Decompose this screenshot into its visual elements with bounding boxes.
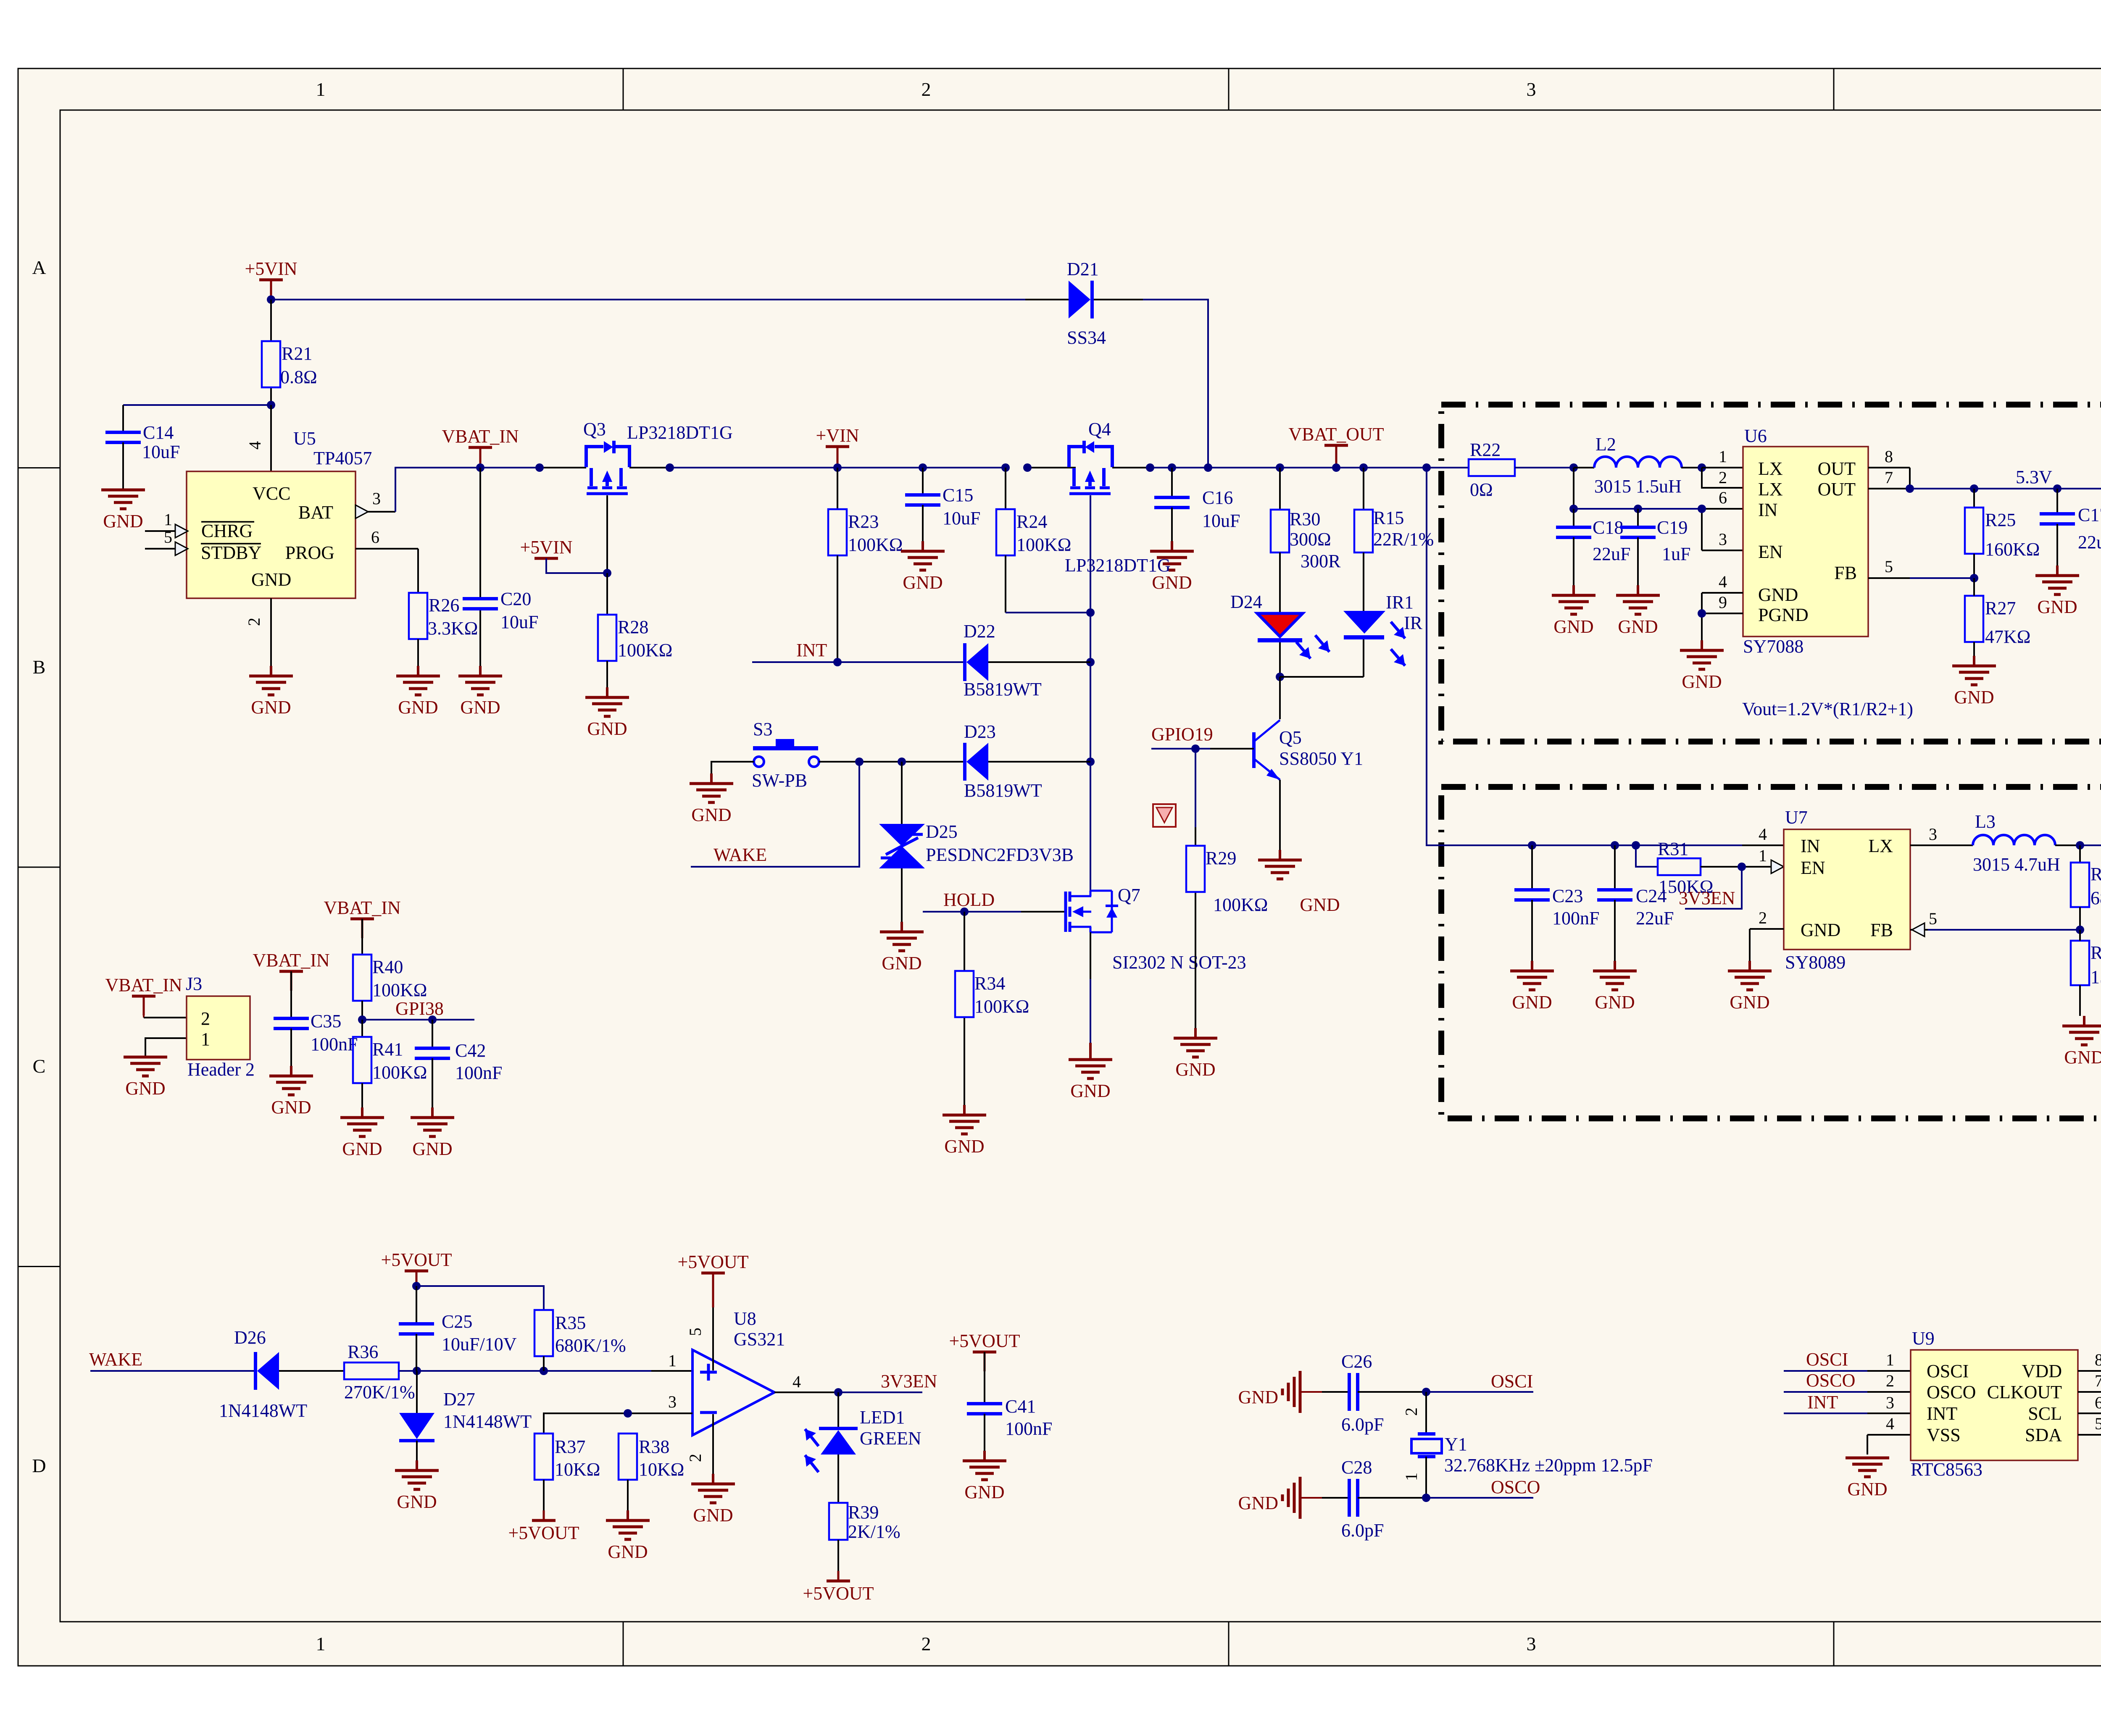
label 100nF C42 (455, 1063, 502, 1083)
svg-text:GND: GND (608, 1541, 648, 1562)
svg-text:VCC: VCC (253, 483, 290, 504)
wire D25 top (901, 762, 903, 824)
svg-text:VBAT_IN: VBAT_IN (253, 950, 329, 971)
label 1N4148WT D27 (443, 1411, 532, 1432)
label R26 (429, 595, 459, 615)
svg-text:GND: GND (882, 953, 921, 973)
pin number 5 U7 (1929, 909, 1937, 928)
label R39 (848, 1502, 879, 1523)
resistor R31 (1658, 858, 1701, 875)
power flag +5VIN gate (520, 537, 572, 558)
svg-text:1N4148WT: 1N4148WT (443, 1411, 532, 1432)
label Header 2 (187, 1059, 255, 1080)
svg-text:R27: R27 (1985, 598, 2016, 618)
svg-text:INT: INT (1927, 1403, 1957, 1424)
ground C23 (1510, 961, 1554, 1013)
junction R35 bottom (540, 1367, 548, 1375)
svg-text:1: 1 (164, 510, 172, 529)
svg-text:C41: C41 (1005, 1396, 1036, 1417)
svg-text:1: 1 (201, 1029, 210, 1049)
svg-text:GND: GND (251, 697, 291, 718)
svg-text:5: 5 (1929, 909, 1937, 928)
wire J3 pin1 to ground (145, 1038, 187, 1056)
svg-text:C18: C18 (1593, 517, 1623, 538)
wire 3.3V rail (2080, 844, 2101, 846)
ground left C26 (1238, 1371, 1349, 1413)
svg-text:3: 3 (1527, 79, 1536, 100)
svg-text:R24: R24 (1016, 511, 1047, 532)
resistor R38 (619, 1434, 637, 1510)
label LP3218DT1G Q3 (627, 422, 733, 443)
junction EN 3V3EN (1738, 863, 1746, 871)
power flag VBAT_IN J3 (105, 975, 182, 1015)
resistor R35 (534, 1310, 553, 1371)
power flag VBAT_IN R40 (324, 897, 400, 938)
pin number 1 U5 (164, 510, 172, 529)
svg-text:R35: R35 (555, 1313, 586, 1333)
svg-text:100KΩ: 100KΩ (372, 980, 427, 1000)
svg-text:IN: IN (1758, 500, 1777, 520)
svg-text:680K/1%: 680K/1% (555, 1335, 626, 1356)
wire D24 to node (1279, 642, 1281, 677)
svg-text:100nF: 100nF (1005, 1418, 1052, 1439)
svg-text:GND: GND (412, 1139, 452, 1159)
svg-text:VDD: VDD (2022, 1361, 2062, 1381)
junction D25 riser (898, 758, 906, 766)
svg-text:100KΩ: 100KΩ (1016, 534, 1071, 555)
svg-text:300R: 300R (1301, 551, 1341, 571)
wire R24 to gate column (1006, 612, 1090, 613)
junction C18 (1569, 505, 1578, 513)
wire minus input (544, 1413, 692, 1434)
label Q7 (1118, 885, 1140, 905)
junction VBAT_OUT (1332, 463, 1340, 472)
svg-text:+5VOUT: +5VOUT (508, 1523, 579, 1543)
label 15Kohm (2090, 967, 2101, 987)
svg-text:6: 6 (1719, 488, 1727, 507)
svg-text:LED1: LED1 (860, 1407, 905, 1428)
svg-text:L2: L2 (1595, 434, 1616, 455)
svg-text:+5VOUT: +5VOUT (803, 1583, 874, 1604)
svg-text:GPI38: GPI38 (395, 998, 444, 1019)
pin name PROG (285, 542, 334, 563)
label TP4057 (313, 448, 372, 468)
pin number 7 U6 (1885, 468, 1893, 487)
ground C20 (458, 666, 502, 718)
net label OSCI crystal (1491, 1371, 1533, 1391)
resistor R39 (829, 1503, 848, 1571)
svg-text:PESDNC2FD3V3B: PESDNC2FD3V3B (926, 844, 1074, 865)
svg-text:R33: R33 (2090, 942, 2101, 963)
junction EN (1698, 505, 1706, 513)
label R40 (372, 957, 403, 977)
label D26 (234, 1327, 266, 1348)
label 3.3Kohm (428, 618, 478, 639)
label 3015 4.7uH (1973, 854, 2060, 875)
label U6 (1744, 426, 1767, 446)
label R38 (639, 1436, 669, 1457)
junction GPI38 R40 (358, 1015, 366, 1024)
junction +5VOUT C25 (412, 1282, 421, 1290)
ground C42 (411, 1107, 454, 1159)
label 100nF C23 (1552, 908, 1599, 928)
svg-text:GND: GND (964, 1482, 1004, 1502)
junction Q4 source node (1023, 463, 1032, 472)
svg-text:1: 1 (1886, 1350, 1894, 1369)
svg-text:WAKE: WAKE (713, 844, 767, 865)
ground left C28 (1238, 1477, 1349, 1519)
svg-text:GND: GND (125, 1078, 165, 1099)
wire R31 to EN (1701, 866, 1771, 868)
label PESDNC2FD3V3B (926, 844, 1074, 865)
label C35 (311, 1011, 341, 1031)
svg-text:GND: GND (397, 1491, 437, 1512)
power flag +5VOUT U8 (677, 1252, 748, 1307)
wire +5VIN to gate junction (546, 558, 607, 573)
svg-text:LP3218DT1G: LP3218DT1G (627, 422, 733, 443)
LED LED1 green (819, 1392, 858, 1503)
pin number 2 U9 (1886, 1371, 1894, 1390)
svg-text:D27: D27 (443, 1389, 475, 1410)
junction C16 (1168, 463, 1176, 472)
net label GPI38 (395, 998, 444, 1019)
label 300R (1301, 551, 1341, 571)
junction OUT (1906, 484, 1914, 493)
svg-text:3: 3 (372, 489, 381, 508)
capacitor C35 (274, 971, 309, 1066)
wire OUT pins to rail (1868, 468, 2101, 489)
svg-text:SY8089: SY8089 (1785, 952, 1846, 973)
svg-text:4: 4 (245, 441, 264, 450)
svg-text:C17: C17 (2078, 505, 2101, 525)
svg-text:4: 4 (1759, 825, 1767, 844)
svg-text:BAT: BAT (298, 502, 333, 523)
pin number 1 U6 (1719, 447, 1727, 466)
wire R29 column (1195, 749, 1196, 1028)
wire C20 column (479, 468, 481, 666)
label R37 (555, 1436, 585, 1457)
junction R31 branch (1632, 841, 1640, 850)
svg-text:R36: R36 (348, 1341, 378, 1362)
svg-text:GND: GND (587, 718, 627, 739)
svg-text:VSS: VSS (1927, 1425, 1961, 1445)
label R21 (282, 343, 312, 364)
pin number 3 (372, 489, 381, 508)
label C19 (1657, 517, 1688, 538)
net label WAKE (713, 844, 767, 865)
svg-text:0.8Ω: 0.8Ω (280, 367, 317, 387)
ground R28 (585, 687, 629, 739)
wire Y1 bottom (1425, 1457, 1427, 1498)
svg-text:GREEN: GREEN (860, 1428, 921, 1449)
svg-text:8: 8 (1885, 447, 1893, 466)
svg-text:8: 8 (2095, 1350, 2101, 1369)
svg-text:100KΩ: 100KΩ (618, 640, 672, 660)
svg-text:IR: IR (1404, 613, 1423, 633)
pin number 9 U6 (1719, 593, 1727, 612)
pin names U6 right (1818, 458, 1857, 583)
svg-text:IN: IN (1801, 836, 1820, 856)
svg-text:S3: S3 (753, 719, 772, 739)
wire WAKE (691, 762, 859, 867)
wire Q3 gate to +5VIN (606, 495, 608, 573)
svg-text:100nF: 100nF (1552, 908, 1599, 928)
svg-text:Y1: Y1 (1445, 1434, 1467, 1455)
pin number 6 U9 (2095, 1393, 2101, 1412)
label 22uF C17 (2078, 532, 2101, 552)
wire to C14 (123, 405, 271, 432)
ground D25 (880, 922, 924, 973)
svg-text:D: D (32, 1455, 46, 1476)
label U5 (293, 428, 316, 449)
svg-text:GS321: GS321 (734, 1329, 785, 1349)
svg-text:PROG: PROG (285, 542, 334, 563)
net label GPIO19 (1151, 724, 1213, 744)
label C15 (943, 485, 973, 505)
label R15 (1373, 508, 1404, 528)
svg-text:R32: R32 (2090, 864, 2101, 884)
svg-text:1: 1 (1759, 846, 1767, 865)
wire VSS to ground (1867, 1435, 1911, 1455)
svg-text:100KΩ: 100KΩ (848, 534, 903, 555)
power flag +5VIN (245, 258, 297, 299)
ground C35 (269, 1066, 313, 1118)
pin 5 FB arrow U7 (1912, 923, 1925, 936)
wire S3 right line D23 (819, 761, 1090, 763)
wire BAT to rail (395, 468, 480, 512)
pin 2 GND stub (270, 598, 272, 666)
capacitor C23 (1514, 845, 1550, 961)
svg-text:32.768KHz ±20ppm 12.5pF: 32.768KHz ±20ppm 12.5pF (1444, 1455, 1653, 1476)
resistor R34 (955, 971, 974, 1017)
svg-text:5: 5 (686, 1328, 705, 1336)
svg-text:Vout=1.2V*(R1/R2+1): Vout=1.2V*(R1/R2+1) (1742, 699, 1913, 719)
pin number 4 U5 (245, 441, 264, 450)
capacitor C25 (399, 1286, 434, 1371)
wire gate to R28 (606, 573, 608, 615)
svg-text:100KΩ: 100KΩ (1213, 894, 1268, 915)
label R24 (1016, 511, 1047, 532)
resistor R37 (534, 1434, 553, 1511)
label 2K/1% (848, 1521, 900, 1542)
LED D24 arrows (1296, 635, 1330, 659)
svg-text:SW-PB: SW-PB (752, 770, 807, 791)
label Q5 (1279, 727, 1302, 748)
label R35 (555, 1313, 586, 1333)
svg-text:GND: GND (1300, 894, 1340, 915)
ground R33 (2062, 1016, 2101, 1068)
capacitor C24 (1597, 845, 1632, 961)
pin number 6 U5 (371, 528, 379, 547)
svg-text:VBAT_OUT: VBAT_OUT (1288, 424, 1384, 445)
svg-text:22uF: 22uF (1636, 908, 1674, 928)
label 22R/1% (1373, 529, 1434, 550)
wire R34 column (964, 912, 965, 1105)
svg-text:EN: EN (1758, 542, 1783, 562)
label U9 (1912, 1328, 1935, 1349)
pin name BAT (298, 502, 333, 523)
label 10Kohm R37 (555, 1459, 600, 1480)
wire HOLD (923, 911, 1064, 913)
label 5.3V (2016, 467, 2052, 487)
pin name CHRG with overline (201, 521, 254, 541)
label 100Kohm R28 (618, 640, 672, 660)
wire U8 V- pin2 (712, 1414, 714, 1474)
capacitor C16 (1154, 468, 1190, 541)
svg-text:6.0pF: 6.0pF (1341, 1520, 1384, 1541)
svg-text:D23: D23 (964, 721, 996, 742)
resistor R25 (1965, 489, 1983, 578)
transistor Q5 SS8050 (1254, 720, 1280, 780)
resistor R28 (598, 615, 616, 661)
label R41 (372, 1039, 403, 1060)
svg-text:C14: C14 (143, 422, 174, 443)
junction D21 feed (1204, 463, 1212, 472)
label SW-PB (752, 770, 807, 791)
label 68Kohm (2090, 888, 2101, 908)
junction C24 (1611, 841, 1619, 850)
net label HOLD (943, 889, 995, 910)
pin number 8 U6 (1885, 447, 1893, 466)
resistor R40 (353, 919, 371, 1020)
junction R24 gate (1086, 608, 1095, 617)
svg-text:B5819WT: B5819WT (964, 679, 1042, 700)
label 22uF C24 (1636, 908, 1674, 928)
wire pin4 U5 (270, 405, 272, 471)
wire R26 to ground (417, 639, 419, 666)
svg-text:6.0pF: 6.0pF (1341, 1414, 1384, 1435)
svg-text:47KΩ: 47KΩ (1985, 626, 2030, 647)
pin number 2 J3 (201, 1008, 210, 1029)
resistor R22 (1469, 459, 1574, 476)
svg-text:+5VOUT: +5VOUT (949, 1331, 1020, 1351)
capacitor C20 (463, 599, 498, 609)
svg-text:VBAT_IN: VBAT_IN (324, 897, 400, 918)
label 22uF C18 (1593, 544, 1630, 564)
wire IN row (1574, 508, 1743, 510)
svg-text:FB: FB (1834, 563, 1857, 583)
wire C28 to OSCO (1358, 1497, 1533, 1499)
svg-text:C26: C26 (1341, 1351, 1372, 1372)
pin names U6 left (1758, 458, 1809, 625)
junction C25 D27 (413, 1367, 421, 1375)
capacitor C17 (2040, 489, 2075, 566)
svg-text:4: 4 (792, 1372, 801, 1391)
svg-text:EN: EN (1801, 857, 1825, 878)
svg-text:CHRG: CHRG (201, 521, 253, 541)
pin number 2 U8 (686, 1454, 705, 1462)
svg-text:C23: C23 (1552, 886, 1583, 906)
junction R22 L2 (1569, 463, 1578, 472)
junction PGND (1698, 609, 1706, 618)
svg-text:OUT: OUT (1818, 479, 1856, 500)
svg-text:GND: GND (398, 697, 438, 718)
svg-text:GPIO19: GPIO19 (1151, 724, 1213, 744)
wire FB net (1868, 577, 1974, 579)
svg-text:2: 2 (921, 79, 931, 100)
svg-text:R25: R25 (1985, 510, 2016, 530)
power flag VBAT_IN C35 (253, 950, 329, 991)
wire IR1 to node (1363, 639, 1364, 677)
ground C16 (1150, 541, 1194, 593)
IC U5 body (187, 471, 355, 598)
wire SCL (2078, 1412, 2101, 1414)
wire D25 bottom to ground (901, 868, 903, 922)
svg-text:C20: C20 (500, 589, 531, 609)
svg-text:Q7: Q7 (1118, 885, 1140, 905)
svg-text:GND: GND (1954, 687, 1994, 708)
label R36 (348, 1341, 378, 1362)
svg-text:0Ω: 0Ω (1470, 479, 1493, 500)
svg-text:6: 6 (371, 528, 379, 547)
svg-text:C25: C25 (442, 1311, 472, 1332)
svg-text:9: 9 (1719, 593, 1727, 612)
svg-text:INT: INT (796, 640, 827, 660)
label L3 (1975, 811, 1996, 832)
label 100Kohm R40 (372, 980, 427, 1000)
pin name VCC (253, 483, 290, 504)
ground C24 (1593, 961, 1637, 1013)
svg-text:R34: R34 (974, 973, 1005, 994)
power flag +5VOUT R37 (508, 1510, 579, 1543)
svg-text:GND: GND (251, 569, 291, 590)
svg-text:STDBY: STDBY (201, 542, 261, 563)
svg-text:C15: C15 (943, 485, 973, 505)
svg-text:5: 5 (2095, 1414, 2101, 1433)
label Y1 (1445, 1434, 1467, 1455)
wire Q5 collector (1279, 677, 1281, 719)
junction C15 (919, 463, 927, 472)
svg-text:+VIN: +VIN (816, 425, 859, 446)
label C18 (1593, 517, 1623, 538)
label C41 (1005, 1396, 1036, 1417)
svg-text:OSCO: OSCO (1806, 1370, 1855, 1391)
label 6.0pF C28 (1341, 1520, 1384, 1541)
svg-text:B: B (33, 656, 46, 678)
svg-text:2: 2 (1719, 468, 1727, 487)
switch S3 SW-PB (753, 739, 819, 767)
pin number 3 U8 (668, 1392, 677, 1411)
junction INT R23 (833, 658, 842, 666)
svg-text:VBAT_IN: VBAT_IN (442, 426, 519, 447)
junction Q3 gate R28 (603, 569, 611, 577)
svg-text:VBAT_IN: VBAT_IN (105, 975, 182, 995)
svg-text:GND: GND (1595, 992, 1635, 1013)
pin number 5 U6 (1885, 557, 1893, 576)
junction +5VIN node (267, 295, 275, 304)
pin number 3 U6 (1719, 530, 1727, 549)
svg-text:R39: R39 (848, 1502, 879, 1523)
svg-text:5: 5 (164, 528, 172, 547)
capacitor C41 (967, 1352, 1002, 1451)
label R29 (1206, 848, 1236, 868)
junction gate D23 (1086, 758, 1095, 766)
label R25 (1985, 510, 2016, 530)
pin 4 stub U7 (1742, 844, 1784, 846)
LED D24 red (1257, 613, 1303, 640)
label Q3 (583, 419, 606, 439)
label D21 (1067, 259, 1099, 279)
svg-text:2: 2 (201, 1008, 210, 1029)
svg-text:FB: FB (1870, 920, 1893, 940)
wire R28 to ground (606, 661, 608, 687)
LED IR1 (1343, 611, 1385, 637)
label 10uF C20 (500, 612, 538, 632)
svg-text:GND: GND (1553, 616, 1593, 637)
pin number 3 U9 (1886, 1393, 1894, 1412)
dashed box buck converter (1441, 787, 2101, 1118)
svg-text:C28: C28 (1341, 1457, 1372, 1478)
